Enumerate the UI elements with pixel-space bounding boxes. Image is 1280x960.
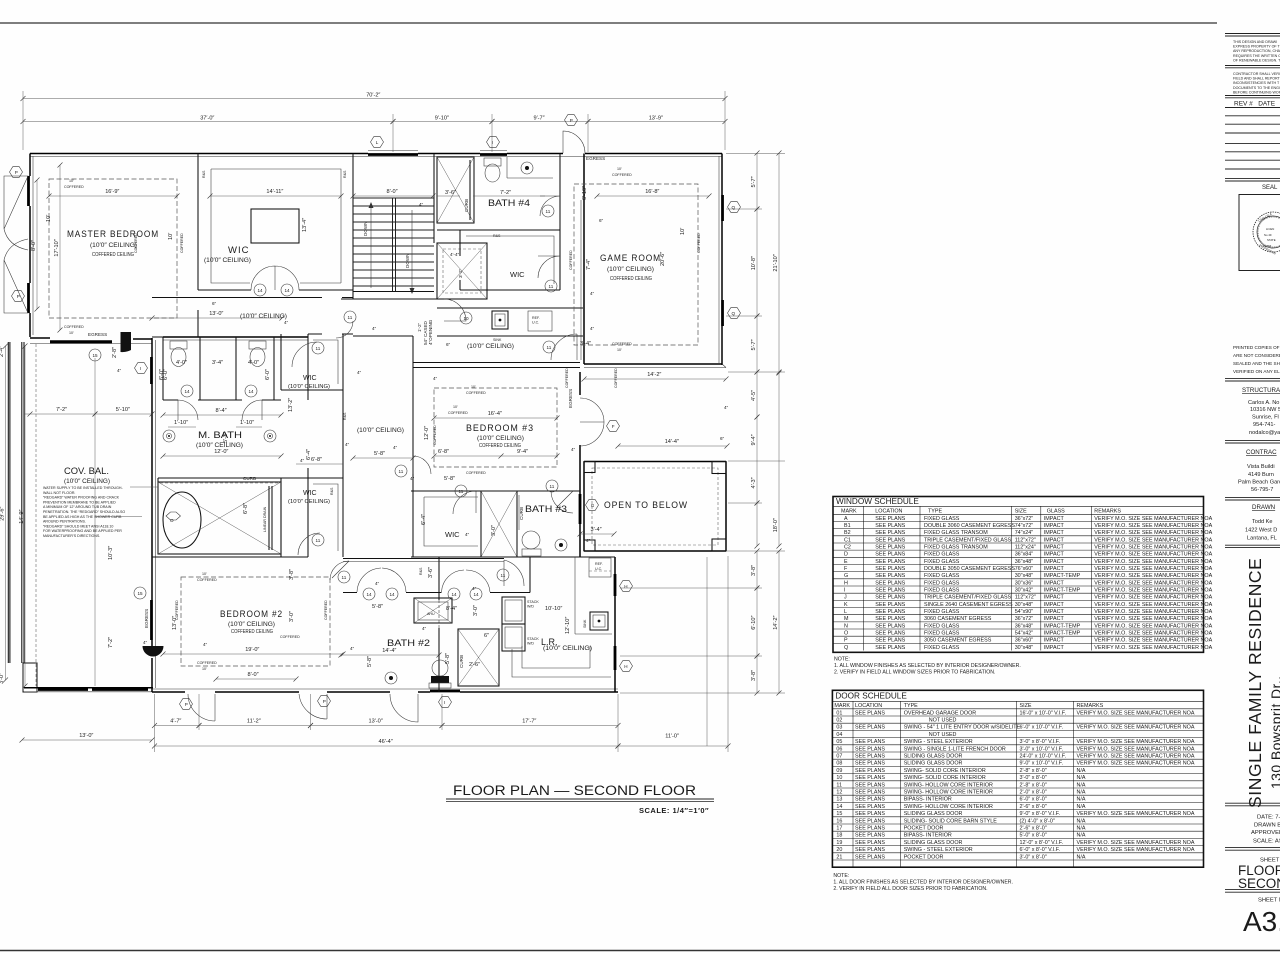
- door schedule table: [832, 690, 1203, 867]
- svg-text:IMPACT-TEMP: IMPACT-TEMP: [1044, 631, 1081, 637]
- svg-text:03: 03: [836, 725, 842, 731]
- svg-text:COFFERED: COFFERED: [324, 600, 328, 620]
- wall x343 wic east: [342, 334, 344, 557]
- svg-text:SEE PLANS: SEE PLANS: [875, 552, 905, 558]
- svg-text:SEE PLANS: SEE PLANS: [875, 588, 905, 594]
- svg-text:10: 10: [464, 316, 470, 321]
- svg-text:Vista Buildi: Vista Buildi: [1247, 464, 1275, 470]
- window L top wall: [368, 153, 418, 156]
- svg-text:Carlos A. No: Carlos A. No: [1248, 400, 1279, 406]
- svg-text:BATH #2: BATH #2: [387, 638, 430, 648]
- svg-text:1422 West D: 1422 West D: [1245, 528, 1277, 534]
- svg-text:SEE PLANS: SEE PLANS: [875, 631, 905, 637]
- svg-text:2'-6" x 8'-0": 2'-6" x 8'-0": [1020, 804, 1047, 810]
- svg-text:COFFERED: COFFERED: [466, 471, 486, 475]
- svg-text:TRIPLE CASEMENT/FIXED GLASS: TRIPLE CASEMENT/FIXED GLASS: [924, 537, 1012, 543]
- svg-text:BEDROOM #2: BEDROOM #2: [220, 609, 283, 620]
- svg-text:14: 14: [474, 592, 480, 597]
- svg-text:13′-0″: 13′-0″: [172, 616, 178, 630]
- svg-text:FIELD AND SHALL REPORT: FIELD AND SHALL REPORT: [1233, 77, 1280, 81]
- svg-text:10′-3″: 10′-3″: [108, 546, 114, 560]
- svg-text:SEE PLANS: SEE PLANS: [875, 623, 905, 629]
- svg-text:SLIDING GLASS DOOR: SLIDING GLASS DOOR: [904, 811, 963, 817]
- wet bar walls: [437, 308, 583, 336]
- svg-text:36"x48": 36"x48": [1015, 623, 1034, 629]
- svg-text:7′-4″: 7′-4″: [586, 259, 592, 270]
- svg-text:IMPACT: IMPACT: [1044, 580, 1065, 586]
- svg-text:WALL NOT FLOOR.: WALL NOT FLOOR.: [43, 491, 75, 495]
- master bath fixtures: [163, 430, 175, 442]
- svg-text:COFFERED: COFFERED: [612, 173, 632, 177]
- svg-text:VERIFY M.O. SIZE SEE MANUFACTU: VERIFY M.O. SIZE SEE MANUFACTURER NOA: [1094, 530, 1212, 536]
- svg-text:LOCATION: LOCATION: [875, 509, 902, 515]
- svg-text:3′-0″: 3′-0″: [473, 605, 479, 616]
- svg-text:VERIFY M.O. SIZE SEE MANUFACTU: VERIFY M.O. SIZE SEE MANUFACTURER NOA: [1094, 580, 1212, 586]
- svg-text:3'-0" x 10'-0" V.I.F.: 3'-0" x 10'-0" V.I.F.: [1020, 746, 1063, 752]
- svg-text:5′-7″: 5′-7″: [751, 176, 757, 187]
- window P left wall lower: [27, 283, 30, 313]
- svg-text:5'-0" x 8'-0": 5'-0" x 8'-0": [1020, 833, 1047, 839]
- interior dim row y196: [49, 195, 177, 197]
- svg-text:46′-4″: 46′-4″: [379, 739, 393, 745]
- svg-text:COFFERED: COFFERED: [197, 661, 217, 665]
- window I top wall: [480, 153, 507, 156]
- svg-text:FIXED GLASS: FIXED GLASS: [924, 609, 960, 615]
- laundry north wall: [411, 556, 615, 558]
- svg-text:MANUFACTURER’S DIRECTIONS.: MANUFACTURER’S DIRECTIONS.: [43, 534, 100, 538]
- svg-text:I: I: [844, 588, 846, 594]
- svg-text:ARE NOT CONSIDERE: ARE NOT CONSIDERE: [1233, 353, 1280, 358]
- svg-text:NOT USED: NOT USED: [929, 718, 957, 724]
- svg-text:3′-2″: 3′-2″: [458, 268, 463, 278]
- svg-text:VERIFY M.O. SIZE SEE MANUFACTU: VERIFY M.O. SIZE SEE MANUFACTURER NOA: [1077, 840, 1195, 846]
- wet bar sink: [492, 311, 508, 329]
- master vertical dims: [36, 180, 38, 309]
- master wic inner shelf lines: [211, 169, 341, 283]
- svg-text:4″: 4″: [375, 581, 380, 586]
- stair west wall: [352, 154, 354, 300]
- svg-text:SEE PLANS: SEE PLANS: [855, 811, 885, 817]
- svg-text:10316 NW 5: 10316 NW 5: [1250, 407, 1280, 413]
- svg-text:SEE PLANS: SEE PLANS: [855, 725, 885, 731]
- svg-text:SEE PLANS: SEE PLANS: [855, 761, 885, 767]
- svg-text:(10′0″ CEILING): (10′0″ CEILING): [357, 427, 404, 434]
- svg-text:16′-9″: 16′-9″: [105, 189, 119, 195]
- svg-text:3′-8″: 3′-8″: [751, 565, 757, 576]
- svg-text:J: J: [844, 595, 847, 601]
- svg-text:COFFERED: COFFERED: [448, 411, 468, 415]
- balcony sliding door hatch: [38, 688, 88, 691]
- window Q lower: [721, 300, 724, 326]
- svg-text:2′-4″: 2′-4″: [0, 346, 5, 357]
- stair east wall: [433, 154, 435, 244]
- svg-text:FIXED GLASS: FIXED GLASS: [924, 516, 960, 522]
- svg-text:SIZE: SIZE: [1020, 703, 1032, 709]
- dim game 16-8: [597, 195, 709, 197]
- svg-text:VERIFY M.O. SIZE SEE MANUFACTU: VERIFY M.O. SIZE SEE MANUFACTURER NOA: [1094, 552, 1212, 558]
- toilet room 1 toilet: [170, 341, 187, 349]
- balcony h dims: [24, 413, 95, 415]
- svg-text:COFFERED: COFFERED: [64, 325, 84, 329]
- svg-text:8′-0″: 8′-0″: [31, 240, 37, 251]
- svg-text:112"x72": 112"x72": [1015, 595, 1036, 601]
- svg-text:REQUIRES THE WRITTEN C: REQUIRES THE WRITTEN C: [1233, 54, 1280, 58]
- svg-text:3′-0″: 3′-0″: [491, 525, 497, 536]
- svg-text:VERIFY M.O. SIZE SEE MANUFACTU: VERIFY M.O. SIZE SEE MANUFACTURER NOA: [1094, 609, 1212, 615]
- svg-text:I: I: [444, 700, 445, 705]
- svg-text:24'-0" x 10'-0" V.I.F.: 24'-0" x 10'-0" V.I.F.: [1020, 754, 1066, 760]
- svg-text:11: 11: [549, 284, 554, 289]
- bath4 wic door arc: [538, 256, 560, 278]
- svg-text:4″: 4″: [350, 646, 355, 651]
- svg-text:B2: B2: [844, 530, 851, 536]
- svg-text:STRUCTURAL: STRUCTURAL: [1242, 387, 1280, 394]
- bedroom3 coffered dashed: [434, 388, 557, 467]
- svg-text:SEE PLANS: SEE PLANS: [855, 782, 885, 788]
- hall wall below stairs: [341, 298, 437, 300]
- svg-text:3′-4″: 3′-4″: [591, 527, 602, 533]
- svg-text:SEE PLANS: SEE PLANS: [875, 573, 905, 579]
- svg-text:COFFERED CEILING: COFFERED CEILING: [610, 276, 652, 282]
- svg-text:112"x24": 112"x24": [1015, 544, 1036, 550]
- stair bottom landing wall: [353, 291, 434, 293]
- svg-text:12′-0″: 12′-0″: [214, 449, 228, 455]
- bottom dim row1: [155, 725, 200, 727]
- svg-text:SLIDING GLASS DOOR: SLIDING GLASS DOOR: [904, 754, 963, 760]
- window Q upper: [721, 195, 724, 221]
- svg-text:IMPACT: IMPACT: [1044, 530, 1065, 536]
- svg-text:14: 14: [258, 288, 264, 293]
- svg-text:H: H: [624, 664, 627, 669]
- svg-text:THIS DESIGN AND DRAWI: THIS DESIGN AND DRAWI: [1233, 40, 1277, 44]
- open to below walls: [584, 462, 726, 552]
- corner posts open to below: [584, 462, 595, 473]
- svg-text:5′-8″: 5′-8″: [372, 604, 383, 610]
- svg-text:Lantana, FL: Lantana, FL: [1247, 536, 1277, 542]
- svg-text:2'-8" x 8'-0": 2'-8" x 8'-0": [1020, 768, 1047, 774]
- svg-text:R&S: R&S: [419, 567, 423, 575]
- bath3 curb: [518, 495, 520, 530]
- svg-text:9′-10″: 9′-10″: [435, 115, 449, 121]
- svg-text:2'-0" x 8'-0": 2'-0" x 8'-0": [1020, 790, 1047, 796]
- svg-text:20′-6″: 20′-6″: [660, 252, 666, 266]
- svg-text:11: 11: [547, 345, 552, 350]
- svg-text:SWING- HOLLOW CORE INTERIOR: SWING- HOLLOW CORE INTERIOR: [904, 790, 993, 796]
- svg-text:F: F: [612, 424, 615, 429]
- svg-text:FIXED GLASS: FIXED GLASS: [924, 552, 960, 558]
- svg-text:COFFERED: COFFERED: [197, 578, 217, 582]
- upper ref uc: [528, 311, 552, 331]
- svg-text:VERIFY M.O. SIZE SEE MANUFACTU: VERIFY M.O. SIZE SEE MANUFACTURER NOA: [1077, 754, 1195, 760]
- svg-text:2'-8" x 8'-0": 2'-8" x 8'-0": [1020, 782, 1047, 788]
- svg-text:R&S: R&S: [493, 234, 501, 238]
- svg-text:nodalco@ya: nodalco@ya: [1249, 430, 1280, 436]
- svg-text:VERIFY M.O. SIZE SEE MANUFACTU: VERIFY M.O. SIZE SEE MANUFACTURER NOA: [1094, 631, 1212, 637]
- svg-text:4″: 4″: [345, 442, 350, 447]
- svg-text:COFFERED: COFFERED: [612, 342, 632, 346]
- svg-text:SEE PLANS: SEE PLANS: [875, 566, 905, 572]
- svg-text:WIC: WIC: [303, 490, 317, 497]
- bath2 dims: [341, 654, 439, 656]
- svg-text:SEE PLANS: SEE PLANS: [875, 638, 905, 644]
- svg-text:6′-0″: 6′-0″: [265, 369, 271, 380]
- svg-text:O: O: [844, 631, 848, 637]
- ref uc laundry: [589, 558, 611, 577]
- door 11 bath2 arc: [330, 561, 349, 580]
- svg-text:SCALE: 1/4″=1′0″: SCALE: 1/4″=1′0″: [639, 806, 709, 815]
- svg-text:COFFERED: COFFERED: [697, 233, 701, 253]
- svg-text:6″: 6″: [484, 633, 489, 639]
- svg-text:13′-0″: 13′-0″: [369, 719, 383, 725]
- stair center stringer: [393, 198, 396, 291]
- svg-text:P: P: [323, 699, 326, 704]
- svg-text:02: 02: [836, 718, 842, 724]
- svg-text:10′-10″: 10′-10″: [545, 606, 562, 612]
- svg-text:GLASS: GLASS: [1047, 509, 1065, 515]
- building bottom wall: [152, 691, 618, 693]
- svg-text:COFFERED: COFFERED: [280, 635, 300, 639]
- svg-text:COFFERED: COFFERED: [180, 233, 184, 253]
- svg-text:PREVENTION MEMBRANE TO BE APPL: PREVENTION MEMBRANE TO BE APPLIED: [43, 500, 116, 504]
- disclaimer paragraph 2: [1233, 72, 1280, 94]
- svg-text:6″: 6″: [212, 301, 217, 306]
- sheet bottom border: [0, 950, 1280, 952]
- svg-text:4″: 4″: [284, 320, 289, 325]
- svg-text:G: G: [591, 503, 595, 508]
- dim 3-4 bath3: [580, 533, 614, 535]
- svg-text:6′-0″: 6′-0″: [163, 369, 169, 380]
- svg-text:CURB: CURB: [459, 655, 464, 668]
- svg-text:SEE PLANS: SEE PLANS: [855, 833, 885, 839]
- svg-text:DOWN: DOWN: [405, 253, 410, 268]
- svg-text:SEE PLANS: SEE PLANS: [855, 710, 885, 716]
- svg-text:FIXED GLASS: FIXED GLASS: [924, 573, 960, 579]
- svg-text:SEE PLANS: SEE PLANS: [855, 840, 885, 846]
- svg-text:SEE PLANS: SEE PLANS: [875, 537, 905, 543]
- svg-text:FOR WATERPROOFING AND BE APPLI: FOR WATERPROOFING AND BE APPLIED PER: [43, 529, 122, 533]
- svg-text:P: P: [185, 702, 188, 707]
- svg-text:SECOND F: SECOND F: [1238, 876, 1280, 891]
- svg-text:SEE PLANS: SEE PLANS: [875, 602, 905, 608]
- svg-text:11: 11: [316, 538, 321, 543]
- svg-text:DRAWN: DRAWN: [1252, 504, 1275, 511]
- svg-text:A3.: A3.: [1243, 906, 1280, 937]
- svg-text:06: 06: [836, 746, 842, 752]
- svg-text:G: G: [844, 573, 848, 579]
- svg-text:5′-10″: 5′-10″: [116, 407, 130, 413]
- svg-text:36"x60": 36"x60": [1015, 638, 1034, 644]
- svg-text:FIXED GLASS: FIXED GLASS: [924, 580, 960, 586]
- svg-text:SEE PLANS: SEE PLANS: [855, 826, 885, 832]
- exterior door swing arcs left: [4, 176, 28, 313]
- svg-text:VERIFY M.O. SIZE SEE MANUFACTU: VERIFY M.O. SIZE SEE MANUFACTURER NOA: [1094, 559, 1212, 565]
- svg-text:(10′0″ CEILING): (10′0″ CEILING): [64, 478, 110, 485]
- master suite bottom wall: [30, 337, 308, 341]
- svg-text:2'-6" x 8'-0": 2'-6" x 8'-0": [1020, 826, 1047, 832]
- lower wic door arc: [298, 533, 320, 555]
- svg-text:DRAWN B: DRAWN B: [1254, 823, 1280, 829]
- svg-text:IMPACT: IMPACT: [1044, 552, 1065, 558]
- dim row2 top: [23, 121, 393, 123]
- linen closet bath3: [481, 491, 517, 557]
- svg-text:EXPRESS PROPERTY OF TH: EXPRESS PROPERTY OF TH: [1233, 45, 1280, 49]
- svg-text:C1: C1: [844, 537, 851, 543]
- svg-text:(10′0″ CEILING): (10′0″ CEILING): [288, 499, 330, 505]
- bedroom2 dims: [163, 653, 343, 655]
- svg-text:(10′0″ CEILING): (10′0″ CEILING): [228, 621, 275, 628]
- svg-text:9′-7″: 9′-7″: [534, 115, 545, 121]
- svg-text:8′-0″: 8′-0″: [248, 672, 259, 678]
- svg-text:DOUBLE 3060 CASEMENT EGRESS: DOUBLE 3060 CASEMENT EGRESS: [924, 523, 1015, 529]
- svg-text:SWING - SINGLE 1-LITE FRENCH D: SWING - SINGLE 1-LITE FRENCH DOOR: [904, 746, 1006, 752]
- svg-text:INCONSISTENCIES WITH T: INCONSISTENCIES WITH T: [1233, 81, 1280, 85]
- svg-text:REMARKS: REMARKS: [1094, 509, 1121, 515]
- svg-text:SINGLE 2640 CASEMENT EGRESS: SINGLE 2640 CASEMENT EGRESS: [924, 602, 1013, 608]
- window 15 egress bedroom2: [150, 600, 153, 640]
- svg-text:36"x72": 36"x72": [1015, 516, 1034, 522]
- svg-text:11: 11: [836, 782, 842, 788]
- svg-text:SEE PLANS: SEE PLANS: [875, 616, 905, 622]
- stair down arrows: [371, 205, 412, 291]
- svg-text:WIC: WIC: [445, 530, 460, 539]
- svg-text:SEE PLANS: SEE PLANS: [875, 595, 905, 601]
- svg-text:(10′0″ CEILING): (10′0″ CEILING): [204, 257, 251, 264]
- svg-text:8′-4″: 8′-4″: [446, 606, 457, 612]
- svg-text:P: P: [570, 118, 573, 123]
- svg-text:OVERHEAD GARAGE DOOR: OVERHEAD GARAGE DOOR: [904, 710, 977, 716]
- svg-text:14: 14: [836, 804, 842, 810]
- svg-text:TRIPLE CASEMENT/FIXED GLASS: TRIPLE CASEMENT/FIXED GLASS: [924, 595, 1012, 601]
- game room east wall: [721, 154, 723, 366]
- svg-text:VERIFY M.O. SIZE SEE MANUFACTU: VERIFY M.O. SIZE SEE MANUFACTURER NOA: [1094, 595, 1212, 601]
- svg-text:SEE PLANS: SEE PLANS: [875, 516, 905, 522]
- top dim extension lines: [23, 91, 725, 152]
- svg-text:4″: 4″: [143, 640, 148, 645]
- svg-text:SWING- SOLID CORE INTERIOR: SWING- SOLID CORE INTERIOR: [904, 768, 986, 774]
- dim 70-2 overall top: [23, 98, 725, 100]
- balcony rail line: [94, 358, 96, 686]
- svg-text:10′: 10′: [471, 385, 476, 389]
- svg-text:IMPACT: IMPACT: [1044, 602, 1065, 608]
- svg-text:6″: 6″: [720, 436, 725, 441]
- svg-text:01: 01: [836, 710, 842, 716]
- svg-text:14′-11″: 14′-11″: [266, 189, 283, 195]
- bedroom3 walls: [411, 363, 580, 558]
- svg-text:3′-8″: 3′-8″: [751, 670, 757, 681]
- svg-text:11: 11: [550, 484, 555, 489]
- window schedule table: [833, 497, 1204, 653]
- svg-text:COFFERED: COFFERED: [64, 185, 84, 189]
- svg-text:VERIFY M.O. SIZE SEE MANUFACTU: VERIFY M.O. SIZE SEE MANUFACTURER NOA: [1094, 566, 1212, 572]
- svg-text:13′-2″: 13′-2″: [288, 398, 294, 412]
- door 14 pair arcs: [357, 568, 490, 592]
- hall 13-0: [152, 317, 282, 319]
- svg-text:IMPACT: IMPACT: [1044, 566, 1065, 572]
- svg-text:17: 17: [836, 826, 842, 832]
- contractor block: [1238, 449, 1280, 493]
- svg-text:FIXED GLASS: FIXED GLASS: [924, 631, 960, 637]
- svg-text:11: 11: [342, 575, 347, 580]
- svg-text:1′-10″: 1′-10″: [240, 420, 254, 426]
- svg-text:IMPACT-TEMP: IMPACT-TEMP: [1044, 588, 1081, 594]
- svg-text:VERIFY M.O. SIZE SEE MANUFACTU: VERIFY M.O. SIZE SEE MANUFACTURER NOA: [1094, 623, 1212, 629]
- svg-text:10′: 10′: [617, 348, 622, 352]
- bed3 dims: [434, 417, 557, 419]
- svg-text:OF RENEWABLE DESIGN. T: OF RENEWABLE DESIGN. T: [1233, 58, 1280, 62]
- window P left wall upper: [27, 176, 30, 206]
- title block separators: [1225, 34, 1280, 893]
- svg-text:11: 11: [399, 469, 404, 474]
- svg-text:10′: 10′: [69, 331, 74, 335]
- svg-text:IMPACT: IMPACT: [1044, 537, 1065, 543]
- svg-text:W/D: W/D: [527, 605, 534, 609]
- bath3 door arc: [551, 491, 573, 513]
- bedroom2 coffered dashed: [181, 577, 330, 666]
- svg-text:3′-6″: 3′-6″: [445, 190, 456, 196]
- svg-text:3′-0″: 3′-0″: [0, 673, 5, 684]
- exterior wall - top: [30, 153, 722, 155]
- svg-text:N/A: N/A: [1077, 768, 1086, 774]
- svg-text:5′-8″: 5′-8″: [374, 451, 385, 457]
- svg-text:SEE PLANS: SEE PLANS: [875, 523, 905, 529]
- svg-text:3060 CASEMENT EGRESS: 3060 CASEMENT EGRESS: [924, 616, 992, 622]
- svg-text:SIZE: SIZE: [1015, 509, 1027, 515]
- svg-text:SWING- HOLLOW CORE INTERIOR: SWING- HOLLOW CORE INTERIOR: [904, 804, 993, 810]
- svg-text:IMPACT-TEMP: IMPACT-TEMP: [1044, 623, 1081, 629]
- svg-text:17′-7″: 17′-7″: [522, 719, 536, 725]
- toilet room 2 toilet: [249, 341, 266, 349]
- svg-text:SWING - STEEL EXTERIOR: SWING - STEEL EXTERIOR: [904, 847, 973, 853]
- bedroom2 north wall: [152, 556, 308, 558]
- svg-text:SWING - 54" 1 LITE ENTRY DOOR: SWING - 54" 1 LITE ENTRY DOOR w/SIDELITE: [904, 725, 1021, 731]
- drawn by block: [1245, 504, 1277, 542]
- svg-text:10′: 10′: [680, 228, 686, 235]
- master tub: [163, 492, 201, 548]
- svg-text:(10′0″ CEILING): (10′0″ CEILING): [90, 242, 137, 249]
- svg-text:COV. BAL.: COV. BAL.: [64, 466, 109, 476]
- svg-text:SWING - STEEL EXTERIOR: SWING - STEEL EXTERIOR: [904, 739, 973, 745]
- svg-text:A: A: [844, 516, 848, 522]
- svg-text:SEE PLANS: SEE PLANS: [855, 739, 885, 745]
- svg-text:SWING- HOLLOW CORE INTERIOR: SWING- HOLLOW CORE INTERIOR: [904, 782, 993, 788]
- dashed line bath: [160, 482, 280, 484]
- master bath south wall: [158, 478, 281, 482]
- svg-text:14: 14: [285, 288, 291, 293]
- svg-text:R&S: R&S: [202, 170, 206, 178]
- game room west wall: [583, 154, 585, 365]
- svg-text:15: 15: [836, 811, 842, 817]
- svg-text:7′-2″: 7′-2″: [56, 407, 67, 413]
- lower wic walls: [281, 478, 343, 557]
- svg-text:9′-4″: 9′-4″: [517, 449, 528, 455]
- svg-text:12: 12: [836, 790, 842, 796]
- svg-text:SEE PLANS: SEE PLANS: [875, 559, 905, 565]
- svg-text:6′-8″: 6′-8″: [438, 449, 449, 455]
- bath4 shower drain: [521, 162, 533, 174]
- svg-text:VERIFY M.O. SIZE SEE MANUFACTU: VERIFY M.O. SIZE SEE MANUFACTURER NOA: [1094, 537, 1212, 543]
- svg-text:AHU: AHU: [427, 612, 435, 616]
- svg-text:4″: 4″: [357, 370, 362, 375]
- svg-text:(10′0″ CEILING): (10′0″ CEILING): [240, 313, 287, 320]
- svg-text:IMPACT-TEMP: IMPACT-TEMP: [1044, 573, 1081, 579]
- svg-text:IMPACT: IMPACT: [1044, 645, 1065, 651]
- svg-text:8′-0″: 8′-0″: [387, 189, 398, 195]
- svg-text:Q: Q: [732, 205, 736, 210]
- svg-text:VERIFY M.O. SIZE SEE MANUFACTU: VERIFY M.O. SIZE SEE MANUFACTURER NOA: [1094, 638, 1212, 644]
- svg-text:16: 16: [836, 818, 842, 824]
- svg-text:AROUND PENTRATIONS.: AROUND PENTRATIONS.: [43, 520, 86, 524]
- svg-text:(10′0″ CEILING): (10′0″ CEILING): [467, 343, 514, 350]
